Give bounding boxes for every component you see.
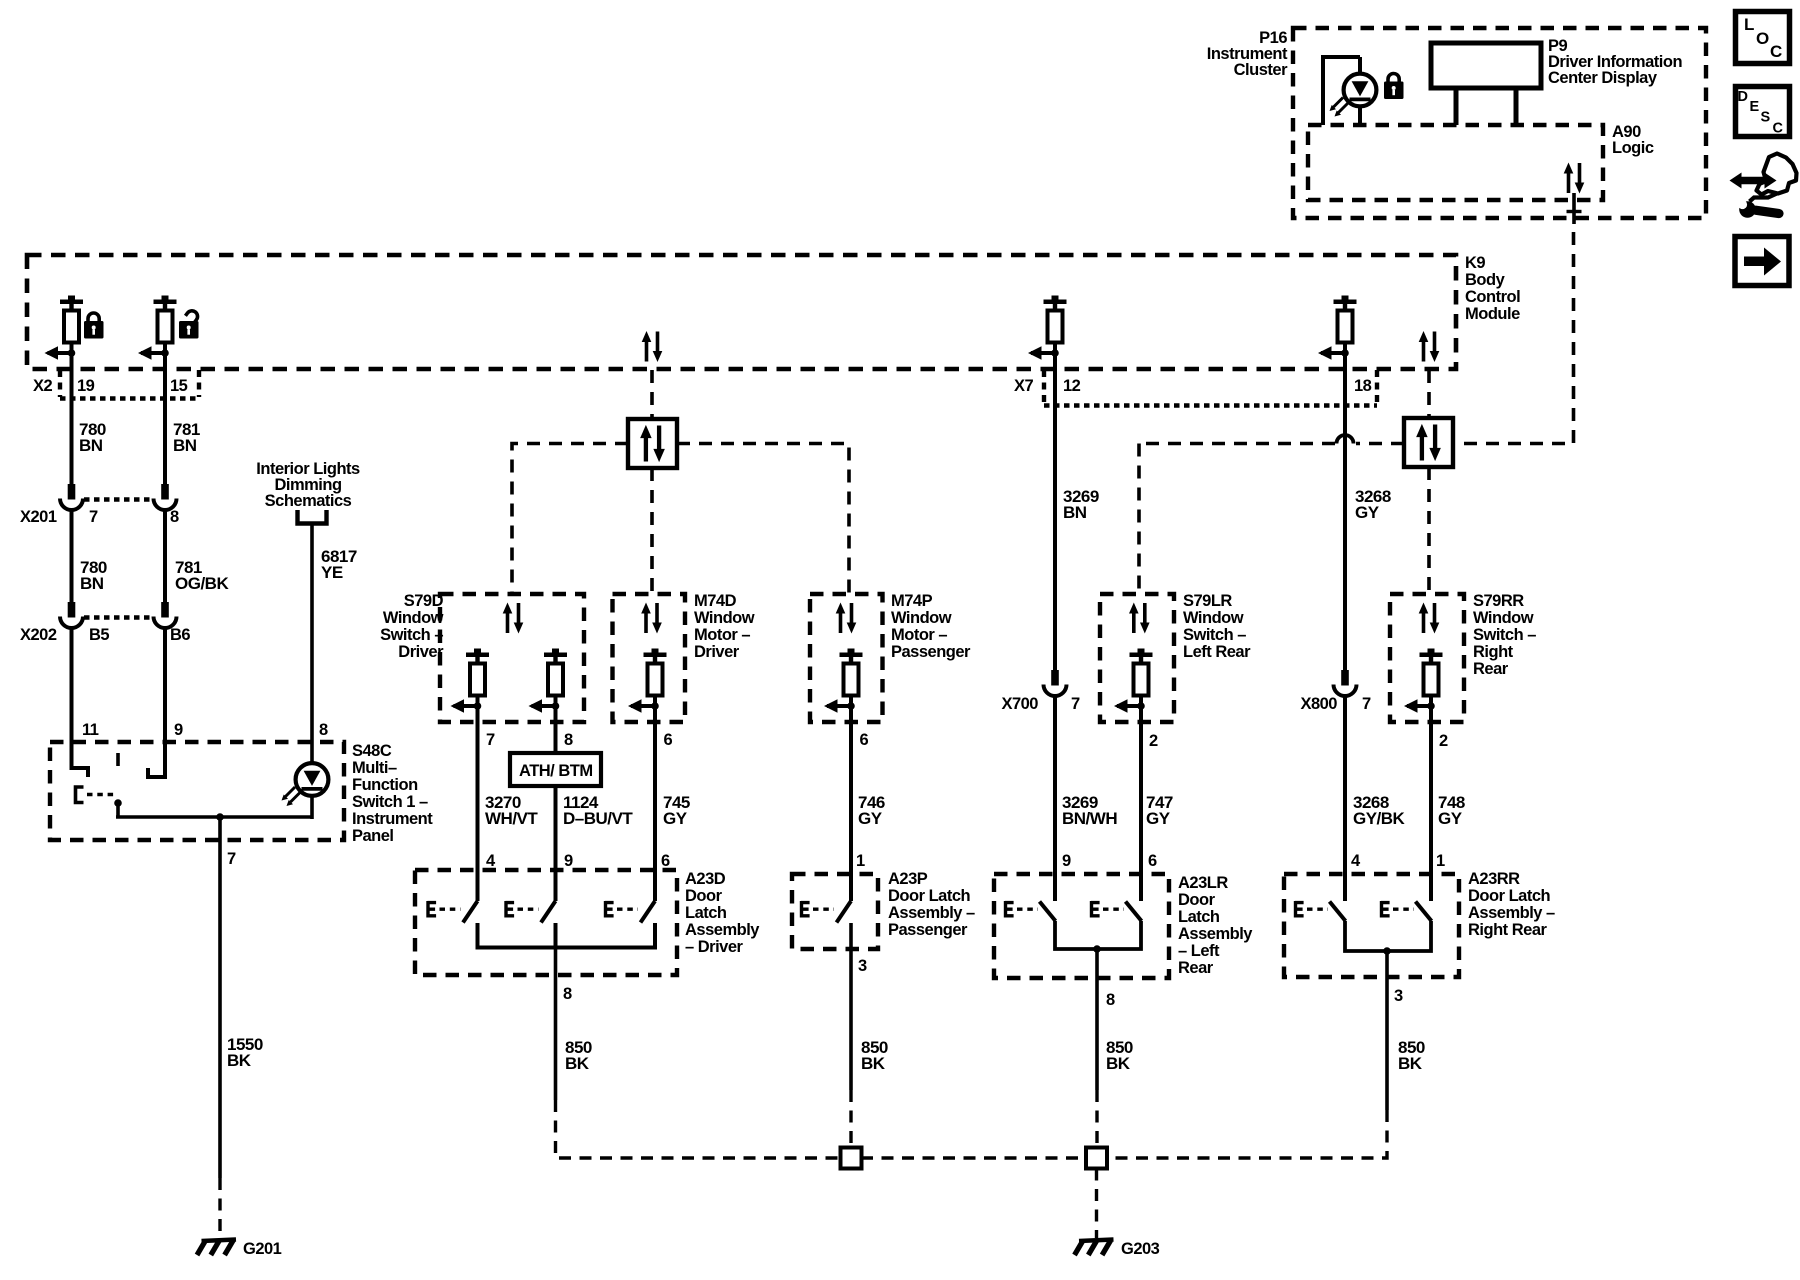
switch A23LR 1 [1005,901,1056,921]
node A23LR junction [1093,945,1101,953]
label 781 OG/BK [175,558,229,593]
svg-text:Switch 1 –: Switch 1 – [352,793,428,811]
svg-text:Passenger: Passenger [888,921,968,939]
svg-text:M74D: M74D [694,592,737,610]
svg-text:Right: Right [1473,643,1514,661]
svg-text:A23RR: A23RR [1468,870,1520,888]
svg-text:Motor –: Motor – [891,626,947,644]
wire A23D internal bus [478,923,656,948]
svg-text:BK: BK [565,1054,590,1073]
svg-text:3: 3 [1394,987,1403,1005]
wire LED to bus [310,796,314,819]
svg-text:9: 9 [174,721,183,739]
connector X700 [1044,670,1067,696]
wire 780 BN lower [72,628,89,777]
wire 781 BN upper [163,353,167,485]
svg-text:WH/VT: WH/VT [485,809,538,828]
switch M74D [628,649,667,713]
icon DESC box [1736,87,1790,137]
svg-text:O: O [1756,29,1769,48]
arrows S79RR [1419,603,1440,634]
wire 3268 GY/BK [1343,696,1347,901]
label 746 GY [858,793,885,828]
wire 1124 D-BU/VT [554,706,558,901]
wire A23LR output [1095,949,1099,1090]
label 6817 YE [321,547,357,582]
svg-text:X2: X2 [33,377,53,395]
svg-text:Assembly –: Assembly – [1468,904,1555,922]
wire 3269 BN/WH [1053,696,1057,901]
wire 3269 BN upper [1053,353,1057,670]
connector X202 pin B5 [60,602,83,628]
switch A23D 2 [506,901,556,923]
svg-text:K9: K9 [1465,254,1485,272]
svg-text:A23D: A23D [685,870,726,888]
wire S48C common drop [116,803,120,818]
wire LED anode [1358,57,1362,74]
window motor M74D box [613,594,686,722]
switch S79D up [451,649,490,713]
door latch A23P box [792,874,878,949]
label 3269 BN [1063,487,1099,522]
svg-text:18: 18 [1354,377,1372,395]
svg-text:GY: GY [663,809,688,828]
connector X202 link [84,615,153,619]
arrows S79LR [1129,603,1150,634]
switch blade S48C [116,753,120,766]
svg-text:8: 8 [319,721,328,739]
serial arrows K9 right [1419,331,1440,362]
svg-text:Instrument: Instrument [352,810,433,828]
wire 746 GY [849,706,853,901]
svg-text:BK: BK [1398,1054,1423,1073]
svg-text:G201: G201 [243,1240,282,1258]
svg-text:Multi–: Multi– [352,759,397,777]
switch A23D 1 [428,901,478,923]
label 748 GY [1438,793,1465,828]
window switch S79RR box [1390,594,1464,722]
svg-text:BK: BK [1106,1054,1131,1073]
connector X201 pin8 [154,484,177,510]
svg-text:6: 6 [664,731,673,749]
label A90 Logic [1612,123,1654,157]
svg-text:Body: Body [1465,271,1506,289]
svg-text:OG/BK: OG/BK [175,574,229,593]
svg-text:2: 2 [1439,732,1448,750]
svg-text:1: 1 [856,852,865,870]
serial data arrows in A90 [1564,163,1585,194]
ground G201 [197,1240,236,1256]
label S79D Window Switch - Driver [380,592,444,661]
svg-text:L: L [1744,15,1754,34]
wire 3268 GY upper [1343,353,1347,670]
arrows motor command left [640,425,665,462]
serial arrows K9 left [642,331,663,362]
driver lock output K9 [45,296,84,360]
svg-text:Cluster: Cluster [1234,61,1288,79]
window output K9 pin18 [1318,296,1357,360]
wire 1550 BK [218,817,222,1178]
label A23P Door Latch Assembly - Passenger [888,870,975,939]
svg-text:– Left: – Left [1178,942,1220,960]
wire command to M74P (dashed) [677,444,849,595]
wire 747 GY [1139,706,1143,901]
svg-text:Driver: Driver [398,643,444,661]
svg-text:C: C [1770,42,1782,61]
door latch A23D box [415,870,677,975]
svg-text:Switch –: Switch – [380,626,443,644]
svg-text:Panel: Panel [352,827,394,845]
svg-text:S48C: S48C [352,742,392,760]
label P16 Instrument Cluster [1207,29,1288,79]
driver unlock output K9 [138,296,177,360]
svg-text:Latch: Latch [685,904,727,922]
svg-text:Assembly: Assembly [1178,925,1253,943]
svg-text:8: 8 [1106,991,1115,1009]
svg-text:B5: B5 [89,626,109,644]
label S79RR Window Switch - Right Rear [1473,592,1536,678]
svg-text:Control: Control [1465,288,1520,306]
wire A23P ground dashed [849,1090,852,1148]
label 850 BK [861,1038,888,1073]
lock icon open [179,309,200,339]
multifunction switch S48C box [50,742,344,840]
LED cluster backlight [1330,74,1377,117]
lock icon closed [84,313,104,339]
wire BCM to S79LR (dashed) [1137,444,1141,595]
wire A23D output [554,948,558,1101]
label 3268 GY/BK [1353,793,1406,828]
wire A23RR output [1385,951,1389,1110]
svg-text:Logic: Logic [1612,139,1654,157]
svg-text:11: 11 [82,721,99,739]
pin leg P9 right [1514,88,1519,125]
svg-text:4: 4 [486,852,496,870]
svg-text:3: 3 [858,957,867,975]
svg-text:Window: Window [1473,609,1534,627]
window motor M74P box [810,594,883,722]
svg-text:D–BU/VT: D–BU/VT [563,809,633,828]
label 850 BK [1398,1038,1425,1073]
svg-text:Assembly –: Assembly – [888,904,975,922]
label box ATH/BTM [510,753,601,786]
door latch A23LR box [994,874,1169,978]
svg-text:X700: X700 [1001,695,1038,713]
label Interior Lights Dimming Schematics [256,460,360,510]
display P9 Driver Information Center Display [1431,43,1541,88]
svg-text:S: S [1761,110,1771,126]
svg-text:ATH/ BTM: ATH/ BTM [519,762,593,780]
svg-text:Switch –: Switch – [1473,626,1536,644]
wire 781 BN mid [163,510,167,603]
svg-text:8: 8 [170,508,179,526]
wire ground bus middle (dashed) [861,1156,1086,1159]
lock indicator icon [1384,74,1404,100]
svg-text:D: D [1738,89,1748,105]
svg-text:GY: GY [1438,809,1463,828]
label 850 BK [565,1038,592,1073]
svg-text:7: 7 [227,850,236,868]
motor command box left [628,419,677,468]
wire A23LR ground dashed [1095,1090,1098,1148]
svg-text:7: 7 [1071,695,1080,713]
wire A23RR to ground bus (dashed) [1107,1110,1387,1158]
svg-text:1: 1 [1436,852,1445,870]
wire LED cathode [1358,106,1362,125]
switch S79RR [1404,649,1443,713]
svg-text:Passenger: Passenger [891,643,971,661]
switch linkage dashes S48C [87,793,114,797]
svg-text:Window: Window [1183,609,1244,627]
label A23RR Door Latch Assembly - Right Rear [1468,870,1555,939]
svg-text:Window: Window [383,609,444,627]
arrows motor command right [1416,424,1441,461]
switch A23RR 1 [1295,901,1346,921]
arrows M74D [641,603,662,634]
svg-text:Window: Window [891,609,952,627]
label 745 GY [663,793,690,828]
arrows M74P [836,603,857,634]
LED S48C illumination [282,763,329,806]
icon forward arrow box [1735,237,1789,286]
wire A23LR internal bus [1055,921,1141,949]
wire S48C internal bus [116,815,312,819]
svg-text:Center Display: Center Display [1548,69,1658,87]
label P9 Driver Information Center Display [1548,37,1682,87]
svg-text:Schematics: Schematics [265,492,352,510]
svg-text:12: 12 [1063,377,1081,395]
instrument cluster P16 box [1293,28,1706,218]
svg-text:9: 9 [1062,852,1071,870]
label 3268 GY [1355,487,1391,522]
splice junction right [1086,1148,1107,1169]
label 3270 WH/VT [485,793,538,828]
svg-text:6: 6 [860,731,869,749]
svg-text:X800: X800 [1300,695,1337,713]
label K9 Body Control Module [1465,254,1520,323]
svg-text:Door Latch: Door Latch [888,887,971,905]
connector X800 [1334,670,1357,696]
svg-text:– Driver: – Driver [685,938,744,956]
connector X201 pin7 [60,484,83,510]
svg-text:GY: GY [1355,503,1380,522]
switch M74P [824,649,863,713]
svg-text:Door: Door [1178,891,1216,909]
connector X202 pin B6 [154,602,177,628]
node S48C output junction [216,813,224,821]
label A23D Door Latch Assembly - Driver [685,870,760,956]
svg-text:BN: BN [1063,503,1087,522]
svg-text:Door: Door [685,887,723,905]
pin leg P9 left [1454,88,1459,125]
svg-text:Motor –: Motor – [694,626,750,644]
svg-text:Left Rear: Left Rear [1183,643,1251,661]
svg-text:9: 9 [564,852,573,870]
svg-text:X7: X7 [1014,377,1034,395]
node A90 output stub [1567,193,1582,224]
wire serial data A90 to BCM (dashed) [1453,232,1574,444]
ground G203 [1075,1240,1114,1256]
svg-text:BN: BN [173,436,197,455]
label 1124 D-BU/VT [563,793,633,828]
label 780 BN [80,558,107,593]
label A23LR Door Latch Assembly - Left Rear [1178,874,1253,977]
backlight LED bracket wire [1323,57,1360,125]
svg-text:8: 8 [564,731,573,749]
svg-text:Module: Module [1465,305,1520,323]
svg-text:Latch: Latch [1178,908,1220,926]
icon part-locator arrow/wrench [1730,154,1797,219]
switch A23D 3 [605,901,655,923]
svg-text:6: 6 [1148,852,1157,870]
svg-text:4: 4 [1351,852,1361,870]
wire BCM to motor command right (dashed) upper [1427,370,1431,417]
svg-text:Assembly: Assembly [685,921,760,939]
svg-text:15: 15 [170,377,188,395]
svg-text:19: 19 [77,377,95,395]
switch S79D down [529,649,568,713]
svg-text:X201: X201 [20,508,57,526]
svg-text:Rear: Rear [1178,959,1214,977]
label 781 BN [173,420,200,455]
splice junction left [841,1148,862,1169]
wire command right to S79RR (dashed) [1427,467,1431,594]
svg-text:Window: Window [694,609,755,627]
svg-text:S79D: S79D [404,592,444,610]
svg-text:7: 7 [1362,695,1371,713]
svg-text:A23LR: A23LR [1178,874,1228,892]
svg-text:E: E [1750,99,1760,115]
svg-text:7: 7 [89,508,98,526]
connector X2 edges [60,370,199,399]
motor command box right [1404,418,1453,467]
svg-text:BN: BN [80,574,104,593]
svg-text:GY: GY [858,809,883,828]
svg-text:M74P: M74P [891,592,933,610]
connector X201 link [84,497,153,501]
window switch S79LR box [1100,594,1174,722]
svg-text:B6: B6 [170,626,190,644]
label 747 GY [1146,793,1173,828]
label 780 BN [79,420,106,455]
switch A23P [801,901,851,923]
svg-text:GY/BK: GY/BK [1353,809,1406,828]
wire command to S79D (dashed) [512,444,628,595]
svg-text:YE: YE [321,563,343,582]
svg-text:C: C [1773,121,1784,137]
wire A23D to ground bus (dashed) [556,1100,842,1158]
wire splice to G203 (dashed) [1095,1169,1098,1239]
wire 1550 BK dashed tail [218,1178,221,1238]
svg-text:7: 7 [486,731,495,749]
wire 780 BN upper [70,353,74,485]
wire command to M74D (dashed) [650,468,654,594]
label M74P Window Motor - Passenger [891,592,971,661]
svg-text:Door Latch: Door Latch [1468,887,1551,905]
label S48C Multi-Function Switch 1 - Instrument Panel [352,742,433,845]
icon LOC box [1736,12,1790,64]
svg-text:GY: GY [1146,809,1171,828]
svg-text:6: 6 [661,852,670,870]
svg-text:Right Rear: Right Rear [1468,921,1548,939]
node S48C common [114,799,122,807]
wire 780 BN mid [70,510,74,603]
wire BCM to motor command (dashed) upper [650,370,654,417]
svg-text:BK: BK [227,1051,252,1070]
wire 781 OG/BK lower [148,628,165,777]
node A23RR junction [1383,947,1391,955]
door latch A23RR box [1284,874,1459,977]
body control module K9 box [27,255,1456,369]
wire command right to S79LR with hop (dashed) [1356,442,1404,446]
label 1550 BK [227,1035,263,1070]
off-page bracket interior lights [298,510,327,524]
svg-text:BK: BK [861,1054,886,1073]
logic module A90 box [1308,125,1603,200]
label S79LR Window Switch - Left Rear [1183,592,1251,661]
wire A23RR internal bus [1345,921,1431,951]
switch A23LR 2 [1091,901,1142,921]
svg-text:G203: G203 [1121,1240,1160,1258]
switch contact bracket S48C [76,787,84,803]
svg-text:Function: Function [352,776,418,794]
arrows S79D [503,603,524,634]
svg-text:S79LR: S79LR [1183,592,1232,610]
wire 745 GY [653,706,657,901]
svg-text:A23P: A23P [888,870,928,888]
wire 6817 YE [310,523,314,764]
svg-text:Driver: Driver [694,643,740,661]
label 850 BK [1106,1038,1133,1073]
wire A23P output [849,923,853,1090]
svg-text:Rear: Rear [1473,660,1509,678]
window output K9 pin12 [1028,296,1067,360]
svg-text:S79RR: S79RR [1473,592,1524,610]
wire 3270 WH/VT [476,706,480,901]
connector X7 edges [1044,370,1377,406]
label M74D Window Motor - Driver [694,592,755,661]
wire 748 GY [1429,706,1433,901]
svg-text:X202: X202 [20,626,57,644]
switch A23RR 2 [1381,901,1432,921]
svg-text:Switch –: Switch – [1183,626,1246,644]
svg-text:BN/WH: BN/WH [1062,809,1117,828]
svg-text:BN: BN [79,436,103,455]
label 3269 BN/WH [1062,793,1117,828]
switch S79LR [1114,649,1153,713]
svg-text:2: 2 [1149,732,1158,750]
window switch S79D box [440,594,584,722]
svg-text:8: 8 [563,985,572,1003]
